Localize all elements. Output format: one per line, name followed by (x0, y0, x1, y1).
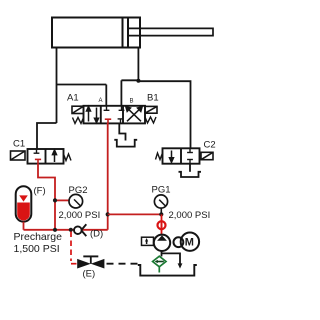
spring right B1 (145, 117, 156, 123)
tank under valve (114, 140, 137, 147)
wire: C1 feed (37, 123, 57, 149)
wire: B branch horizontal (121, 79, 138, 81)
valve right box crossed arrows (126, 107, 142, 122)
wire: C2 feed (138, 81, 190, 148)
svg-text:(D): (D) (90, 229, 103, 240)
node dot accumulator junction (53, 228, 57, 232)
wire: pump suction (161, 251, 163, 256)
C1 blocked top port (34, 149, 40, 153)
wire: C2 drain stub (189, 164, 191, 172)
accumulator gas valve triangle (19, 195, 28, 201)
wire: cylinder right port down (137, 48, 139, 82)
cylinder piston (123, 18, 129, 48)
black dashed pipe from E to tank (107, 263, 140, 265)
coupling circle (174, 237, 184, 247)
tank under C2 (179, 172, 202, 177)
svg-text:1,500 PSI: 1,500 PSI (14, 243, 60, 255)
red pipe: P riser to valve (107, 123, 109, 230)
filter strainer (153, 256, 166, 272)
red outlet indicator (158, 214, 166, 235)
wire: case drain to tank (162, 253, 181, 264)
svg-text:PG2: PG2 (69, 185, 88, 196)
svg-text:A1: A1 (67, 93, 79, 104)
spring C2 left (156, 153, 163, 160)
svg-text:A: A (99, 98, 103, 104)
shutoff valve E (77, 256, 104, 268)
solenoid C1 (11, 151, 26, 160)
svg-text:B1: B1 (147, 93, 159, 104)
svg-text:(F): (F) (34, 186, 46, 197)
gauge PG1 (154, 195, 167, 208)
svg-text:M: M (185, 237, 194, 249)
svg-text:PG1: PG1 (152, 185, 171, 196)
accumulator F shell (16, 186, 32, 222)
wire: PG1 stem (160, 208, 162, 214)
pump P1 (154, 235, 170, 251)
svg-text:B: B (130, 99, 134, 105)
red pipe: main supply line (24, 229, 108, 231)
C2 flow arrow down (170, 151, 174, 163)
spring C1 right (64, 154, 72, 161)
accumulator outline (16, 186, 32, 222)
accumulator red liquid (17, 203, 30, 221)
svg-text:2,000 PSI: 2,000 PSI (59, 210, 101, 221)
gauge PG2 (69, 194, 83, 208)
wire: A port drop (105, 85, 107, 107)
wire: cylinder left port down (56, 48, 58, 124)
svg-text:C2: C2 (204, 140, 216, 151)
node dot E branch (69, 228, 73, 232)
node dot pump branch (106, 212, 110, 216)
svg-text:2,000 PSI: 2,000 PSI (169, 210, 211, 221)
motor M1 (181, 233, 199, 251)
red pipe: C1 drain to junction (38, 164, 55, 230)
svg-text:C1: C1 (13, 139, 25, 150)
red pipe: branch to pump/PG1 (108, 213, 162, 215)
svg-text:Precharge: Precharge (14, 231, 63, 243)
red pipe: PG2 branch (55, 199, 69, 201)
wire: A branch horizontal (57, 84, 107, 86)
valve left box parallel arrows (87, 107, 99, 123)
valve C1 body (28, 149, 64, 164)
reservoir tank (138, 265, 197, 276)
node dot PG1 tap (159, 212, 163, 216)
C2 blocked bottom port (187, 160, 193, 164)
red pipe: accumulator stem (23, 222, 25, 230)
node dot PG2 tap (53, 198, 57, 202)
solenoid C2 (201, 152, 213, 159)
red dashed pipe to E (71, 232, 77, 264)
valve C2 body (163, 148, 200, 163)
wire: B port drop (120, 80, 122, 106)
solenoid B1 (145, 106, 157, 113)
check valve D (74, 224, 86, 236)
pump compensator box (142, 237, 154, 245)
node junction right port (136, 79, 140, 83)
C1 flow arrow up (53, 150, 57, 162)
cylinder barrel (52, 18, 140, 48)
spring left A1 (73, 118, 84, 124)
svg-text:(E): (E) (83, 269, 96, 280)
solenoid A1 (72, 106, 84, 113)
wire: T drain of valve (119, 123, 125, 140)
C2 blocked top port (187, 148, 193, 152)
C1 blocked bottom port (red) (35, 159, 41, 163)
cylinder rod (128, 28, 213, 35)
op valve U1 A1/B1 body (84, 106, 146, 124)
valve centre box P port blocked (red) (105, 119, 111, 123)
valve centre box blocked ports (104, 106, 125, 124)
